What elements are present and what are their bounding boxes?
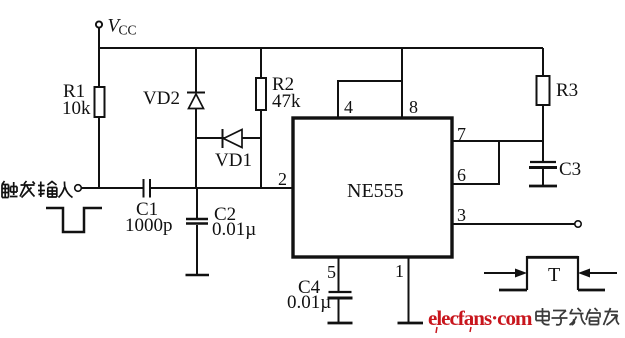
svg-text:R3: R3 [556,80,578,101]
label 触发输入 trigger input [2,181,73,198]
arrow left width marker [484,269,527,278]
wire pin7 [452,140,543,142]
capacitor C4 [328,257,353,323]
capacitor C2 [186,188,210,275]
diode VD2 [187,93,205,109]
resistor R3 [537,76,550,105]
output pulse waveform [499,256,605,290]
svg-text:0.01µ: 0.01µ [287,292,331,313]
capacitor C3 [529,162,557,186]
label R2 47k [272,74,301,112]
wire R3 branch [542,48,544,162]
wire R1 branch [98,48,100,188]
svg-text:NE555: NE555 [347,180,404,202]
label C2 0.01u [212,204,256,240]
watermark 电子发烧友 [536,308,619,325]
svg-text:8: 8 [409,97,418,117]
svg-text:VD2: VD2 [143,88,180,109]
svg-text:6: 6 [457,165,466,185]
wire VD1 link [196,137,261,139]
svg-text:10k: 10k [62,98,91,119]
wire pin8 drop [401,48,403,117]
wire R2 branch [260,48,262,188]
wire VD2 branch [195,48,197,188]
svg-text:4: 4 [344,97,353,117]
svg-text:1000p: 1000p [125,215,173,236]
label C1 1000p [125,199,173,236]
svg-text:0.01µ: 0.01µ [212,219,256,240]
wire pin2 [150,187,293,189]
wire input node [82,187,144,189]
svg-text:3: 3 [457,205,466,225]
watermark elecfans.com [428,306,533,333]
svg-text:VD1: VD1 [215,150,252,171]
wire pin1 ground [398,257,424,323]
label VCC [108,16,137,38]
terminal output [575,221,581,227]
terminal trigger input [75,185,82,192]
IC NE555 [293,118,452,257]
svg-text:T: T [548,264,560,286]
input pulse waveform [46,208,102,232]
wire pin6 bracket [452,141,499,184]
resistor R1 [95,87,105,117]
svg-text:C3: C3 [559,159,581,180]
svg-text:elecfans·com: elecfans·com [428,306,533,330]
diode VD1 [223,129,243,148]
arrow right width marker [578,269,617,278]
wire top supply rail [99,47,544,49]
label C4 0.01u [287,277,331,313]
svg-text:1: 1 [395,261,404,281]
svg-text:CC: CC [119,23,137,38]
resistor R2 [256,78,266,110]
capacitor C1 [144,179,151,198]
svg-text:47k: 47k [272,91,301,112]
terminal VCC [96,21,102,48]
label R1 10k [62,81,91,119]
svg-text:5: 5 [327,262,336,282]
wire pin3 output [452,223,575,225]
wire pin4 bracket [338,81,402,117]
svg-text:2: 2 [278,169,287,189]
